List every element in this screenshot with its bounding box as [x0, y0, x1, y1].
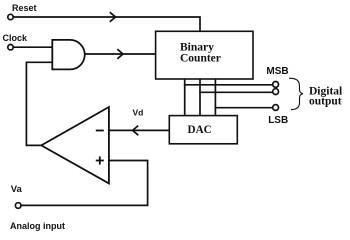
svg-text:Clock: Clock: [3, 33, 29, 43]
svg-text:Analog input: Analog input: [10, 221, 65, 231]
svg-text:DAC: DAC: [188, 124, 212, 136]
svg-text:MSB: MSB: [266, 66, 288, 77]
svg-text:Vd: Vd: [133, 107, 144, 117]
svg-text:Va: Va: [11, 184, 23, 195]
svg-text:Counter: Counter: [180, 52, 221, 64]
svg-text:LSB: LSB: [268, 115, 288, 126]
svg-text:output: output: [309, 96, 342, 108]
svg-text:Reset: Reset: [12, 3, 37, 13]
